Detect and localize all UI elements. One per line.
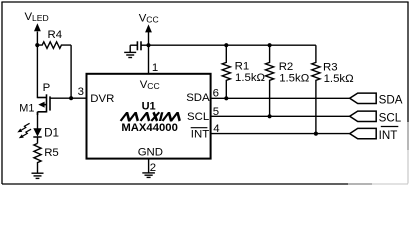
wire GND pin 2 [148,159,150,174]
ground (capacitor) [124,52,136,57]
svg-text:SDA: SDA [379,93,403,106]
svg-text:CC: CC [146,15,158,25]
border frame [1,2,408,184]
svg-text:1.5kΩ: 1.5kΩ [235,72,266,84]
svg-text:R2: R2 [279,61,294,73]
LED D1 [33,128,41,136]
svg-text:MAX44000: MAX44000 [121,122,178,134]
resistor R4 [37,42,71,49]
resistor R5 [34,143,41,173]
svg-text:3: 3 [78,86,84,98]
svg-text:CC: CC [147,81,159,91]
wire VCC down to pin 1 [148,32,150,73]
svg-text:INT: INT [191,128,209,140]
wire SDA pin 6 [211,97,350,99]
ground (R5) [32,173,44,178]
wire VCC rail to pullups [149,44,316,46]
D1 emission arrow 2 [19,129,31,138]
Maxim logo [121,112,182,121]
node VLED label [25,11,49,23]
wire D1 cathode to R5 [37,137,39,143]
D1 emission arrow 1 [17,123,29,132]
svg-text:P: P [43,82,51,94]
svg-text:5: 5 [213,106,219,118]
node VCC label [139,12,159,24]
wire gate to DVR pin 3 [51,97,88,99]
wire drain to D1 [37,112,39,129]
svg-text:2: 2 [150,162,156,174]
svg-text:R4: R4 [48,29,63,41]
resistor R3 [312,45,354,136]
connector INT [350,127,399,142]
svg-text:M1: M1 [19,103,34,115]
svg-text:GND: GND [138,147,163,159]
svg-text:SCL: SCL [379,111,402,124]
capacitor C1 [137,41,141,50]
svg-text:DVR: DVR [90,93,114,105]
ground (pin 2) [142,173,155,178]
svg-text:1.5kΩ: 1.5kΩ [324,73,355,85]
svg-text:1: 1 [152,62,158,74]
svg-text:SDA: SDA [186,92,210,104]
VLED arrow [34,23,41,31]
node junction gate/R4/DVR [69,96,73,100]
svg-text:D1: D1 [44,127,59,140]
svg-text:1.5kΩ: 1.5kΩ [279,73,310,85]
resistor R2 [266,43,310,118]
svg-text:4: 4 [213,123,219,135]
svg-text:SCL: SCL [187,111,209,123]
connector SDA [350,93,403,106]
connector SCL [350,111,402,124]
node junction VCC [146,43,150,47]
VCC arrow [145,24,152,32]
wire INT pin 4 [211,133,350,135]
svg-text:R3: R3 [323,61,338,73]
wire SCL pin 5 [211,115,350,117]
op-amp U1 box (MAX44000 IC) [87,74,211,159]
resistor R1 [222,43,265,100]
pin label VCC (pin 1) [140,79,160,91]
svg-text:R5: R5 [44,147,59,159]
wire VLED rail down to MOSFET source [36,32,38,99]
svg-text:R1: R1 [235,61,250,73]
node junction VLED/R4 [35,43,39,47]
svg-text:INT: INT [379,129,398,142]
wire R4 right end down to gate node [70,45,72,98]
svg-text:LED: LED [32,13,49,23]
svg-text:6: 6 [213,87,219,99]
svg-text:U1: U1 [142,100,156,112]
transistor M1 (PMOS) [38,94,51,115]
